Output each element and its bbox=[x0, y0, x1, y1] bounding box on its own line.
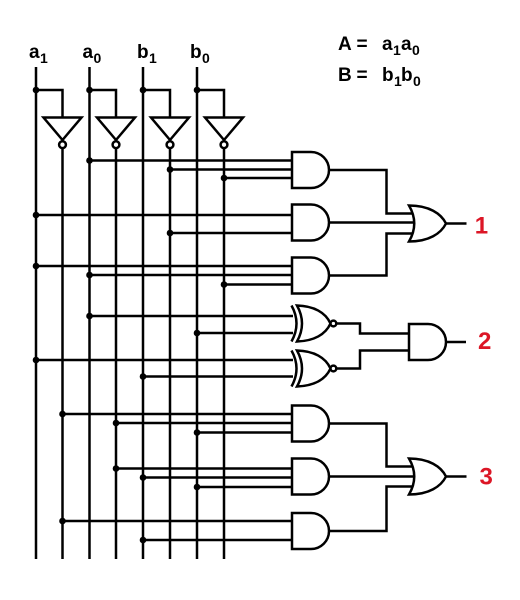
junction b1-AND6 bbox=[140, 537, 147, 544]
wire rail a1-not bbox=[61, 147, 64, 559]
wire a1-not to AND6 input1 bbox=[63, 520, 297, 523]
and-gate AND7 bbox=[409, 324, 446, 360]
wire rail b0 bbox=[196, 67, 199, 559]
and-gate AND3 bbox=[292, 258, 329, 294]
junction a0-XNOR1 bbox=[86, 313, 93, 320]
wire b0-not to AND1 input3 bbox=[224, 177, 296, 180]
junction a1-AND3 bbox=[33, 263, 40, 270]
wire a1 to inverter U1 bbox=[36, 90, 63, 118]
equation A = a1a0 bbox=[338, 34, 420, 58]
wire OR3 output to node 3 bbox=[446, 475, 467, 478]
wire b0 to inverter U4 bbox=[197, 90, 224, 118]
wire a0 to XNOR1 input1 bbox=[90, 315, 294, 318]
wire AND4 output to OR3 input1 bbox=[329, 424, 414, 467]
wire b0 to AND4 input3 bbox=[197, 431, 296, 434]
and-gate AND6 bbox=[292, 513, 329, 549]
inverter U4 bbox=[205, 118, 243, 149]
junction b0-XNOR1 bbox=[194, 330, 201, 337]
junction a1-AND2 bbox=[33, 212, 40, 219]
wire a1 to AND2 input1 bbox=[36, 214, 296, 217]
junction a0not-AND5 bbox=[113, 465, 120, 472]
xnor-gate XNOR1 bbox=[292, 306, 337, 342]
junction b0-AND4 bbox=[194, 429, 201, 436]
junction b0not-AND1 bbox=[221, 175, 228, 182]
inverter U1 bbox=[44, 118, 82, 149]
wire a0-not to AND4 input2 bbox=[116, 422, 296, 425]
wire b0-not to AND3 input3 bbox=[224, 283, 296, 286]
and-gate AND4 bbox=[292, 406, 329, 442]
svg-text:1: 1 bbox=[40, 50, 48, 66]
svg-text:a: a bbox=[83, 42, 94, 63]
xnor-gate XNOR2 bbox=[292, 351, 337, 387]
junction b1not-AND2 bbox=[167, 230, 174, 237]
junction a0-AND1 bbox=[86, 157, 93, 164]
wire b1-not to AND2 input2 bbox=[170, 232, 296, 235]
svg-text:1: 1 bbox=[475, 212, 488, 239]
svg-text:a: a bbox=[401, 34, 412, 55]
label b1 bbox=[137, 42, 157, 66]
junction a1-XNOR2 bbox=[33, 357, 40, 364]
wire b1-not to AND1 input2 bbox=[170, 168, 296, 171]
junction a1not-AND6 bbox=[59, 518, 66, 525]
wire a0 to AND1 input1 bbox=[90, 159, 297, 162]
wire b1 to XNOR2 input2 bbox=[143, 375, 293, 378]
wire a1-not to AND4 input1 bbox=[63, 413, 297, 416]
wire AND3 output to OR1 input3 bbox=[329, 234, 414, 276]
wire rail b1 bbox=[142, 67, 145, 559]
and-gate AND2 bbox=[292, 205, 329, 241]
wire rail a0 bbox=[88, 67, 91, 559]
svg-text:B: B bbox=[338, 65, 352, 86]
or-gate OR3 bbox=[409, 459, 446, 495]
svg-text:0: 0 bbox=[412, 42, 420, 58]
junction a1not-AND4 bbox=[59, 411, 66, 418]
wire a0-not to AND5 input1 bbox=[116, 467, 296, 470]
wire b1 to inverter U3 bbox=[143, 90, 170, 118]
svg-text:b: b bbox=[137, 42, 149, 63]
wire b0 to XNOR1 input2 bbox=[197, 332, 293, 335]
svg-text:a: a bbox=[29, 42, 40, 63]
junction a0-AND3 bbox=[86, 272, 93, 279]
svg-text:a: a bbox=[382, 34, 393, 55]
wire AND5 output to OR3 input2 bbox=[329, 475, 416, 478]
label a0 bbox=[83, 42, 102, 66]
svg-text:0: 0 bbox=[413, 73, 421, 89]
svg-text:=: = bbox=[357, 34, 368, 55]
wire a1 to XNOR2 input1 bbox=[36, 359, 293, 362]
svg-text:b: b bbox=[190, 42, 202, 63]
svg-text:=: = bbox=[357, 65, 368, 86]
svg-text:A: A bbox=[338, 34, 352, 55]
junction b1-inverter bbox=[140, 87, 147, 94]
wire OR1 output to node 1 bbox=[446, 222, 467, 225]
svg-text:b: b bbox=[382, 65, 394, 86]
svg-text:2: 2 bbox=[478, 328, 491, 355]
wire a0 to AND3 input2 bbox=[90, 274, 297, 277]
inverter U2 bbox=[97, 118, 135, 149]
inverter U3 bbox=[151, 118, 189, 149]
svg-text:0: 0 bbox=[94, 50, 102, 66]
or-gate OR1 bbox=[409, 206, 446, 242]
wire XNOR2 output to AND7 input2 bbox=[336, 351, 412, 369]
junction b0-inverter bbox=[194, 87, 201, 94]
junction a1-inverter bbox=[33, 87, 40, 94]
svg-text:0: 0 bbox=[202, 50, 210, 66]
wire a0 to inverter U2 bbox=[90, 90, 117, 118]
junction a0-inverter bbox=[86, 87, 93, 94]
wire AND6 output to OR3 input3 bbox=[329, 487, 414, 532]
svg-text:1: 1 bbox=[393, 42, 401, 58]
label a1 bbox=[29, 42, 48, 66]
wire b0 to AND5 input3 bbox=[197, 486, 296, 489]
wire rail a0-not bbox=[115, 147, 118, 559]
equation B = b1b0 bbox=[338, 65, 421, 89]
label b0 bbox=[190, 42, 210, 66]
wire XNOR1 output to AND7 input1 bbox=[336, 324, 412, 334]
wire b1 to AND6 input2 bbox=[143, 539, 296, 542]
junction b1not-AND1 bbox=[167, 166, 174, 173]
svg-text:b: b bbox=[401, 65, 413, 86]
svg-text:3: 3 bbox=[480, 463, 493, 490]
junction b0not-AND3 bbox=[221, 281, 228, 288]
and-gate AND5 bbox=[292, 459, 329, 495]
junction b1-XNOR2 bbox=[140, 373, 147, 380]
junction b1-AND5 bbox=[140, 474, 147, 481]
svg-text:1: 1 bbox=[149, 50, 157, 66]
wire a1 to AND3 input1 bbox=[36, 265, 296, 268]
wire AND1 output to OR1 input1 bbox=[329, 170, 414, 214]
wire rail b0-not bbox=[223, 147, 226, 559]
wire AND2 output to OR1 input2 bbox=[329, 221, 416, 224]
junction a0not-AND4 bbox=[113, 420, 120, 427]
wire rail a1 bbox=[35, 67, 38, 559]
junction b0-AND5 bbox=[194, 484, 201, 491]
and-gate AND1 bbox=[292, 152, 329, 188]
wire b1 to AND5 input2 bbox=[143, 476, 296, 479]
wire AND7 output to node 2 bbox=[447, 341, 467, 344]
wire rail b1-not bbox=[169, 147, 172, 559]
